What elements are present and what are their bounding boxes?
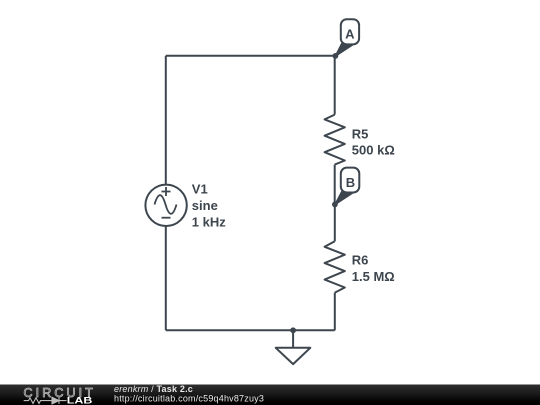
node B flag bbox=[335, 168, 359, 205]
resistor R5 bbox=[325, 115, 345, 165]
wire node A to R5 bbox=[334, 56, 336, 115]
value 1 kHz bbox=[192, 215, 226, 230]
svg-text:R5: R5 bbox=[352, 126, 369, 141]
node A flag bbox=[335, 19, 359, 56]
wire top bbox=[166, 55, 336, 57]
label R6 bbox=[352, 252, 369, 267]
logo resistor-diode glyph bbox=[24, 397, 67, 404]
svg-text:1 kHz: 1 kHz bbox=[192, 215, 226, 230]
wire node B to R6 bbox=[334, 204, 336, 241]
svg-text:sine: sine bbox=[192, 198, 218, 213]
label V1 bbox=[192, 181, 208, 196]
junction node A bbox=[333, 53, 339, 59]
voltage source V1 bbox=[145, 185, 186, 226]
svg-text:B: B bbox=[346, 175, 355, 190]
value 1.5 MOhm bbox=[352, 269, 395, 284]
svg-text:LAB: LAB bbox=[67, 396, 93, 405]
wire ground stub bbox=[292, 330, 294, 347]
value 500 kOhm bbox=[352, 143, 395, 158]
value sine bbox=[192, 198, 218, 213]
wire R6 to bottom bbox=[334, 293, 336, 331]
wire left lower bbox=[165, 226, 167, 330]
ground bbox=[276, 348, 311, 364]
footer url bbox=[114, 394, 264, 404]
svg-text:A: A bbox=[345, 27, 355, 42]
resistor R6 bbox=[325, 241, 345, 292]
svg-text:R6: R6 bbox=[352, 252, 369, 267]
junction ground bbox=[290, 327, 296, 333]
label R5 bbox=[352, 126, 369, 141]
svg-text:http://circuitlab.com/c59q4hv8: http://circuitlab.com/c59q4hv87zuy3 bbox=[114, 394, 264, 404]
wire bottom bbox=[166, 329, 335, 331]
svg-text:V1: V1 bbox=[192, 181, 208, 196]
logo CIRCUIT bbox=[24, 386, 96, 400]
svg-text:500 kΩ: 500 kΩ bbox=[352, 143, 395, 158]
svg-text:1.5 MΩ: 1.5 MΩ bbox=[352, 269, 395, 284]
logo LAB bbox=[67, 396, 93, 405]
wire R5 to node B bbox=[334, 165, 336, 205]
wire left upper bbox=[165, 56, 167, 185]
footer title bbox=[114, 384, 193, 394]
footer bar bbox=[0, 385, 540, 405]
junction node B bbox=[332, 202, 338, 208]
svg-text:erenkrm / Task 2.c: erenkrm / Task 2.c bbox=[114, 384, 193, 394]
